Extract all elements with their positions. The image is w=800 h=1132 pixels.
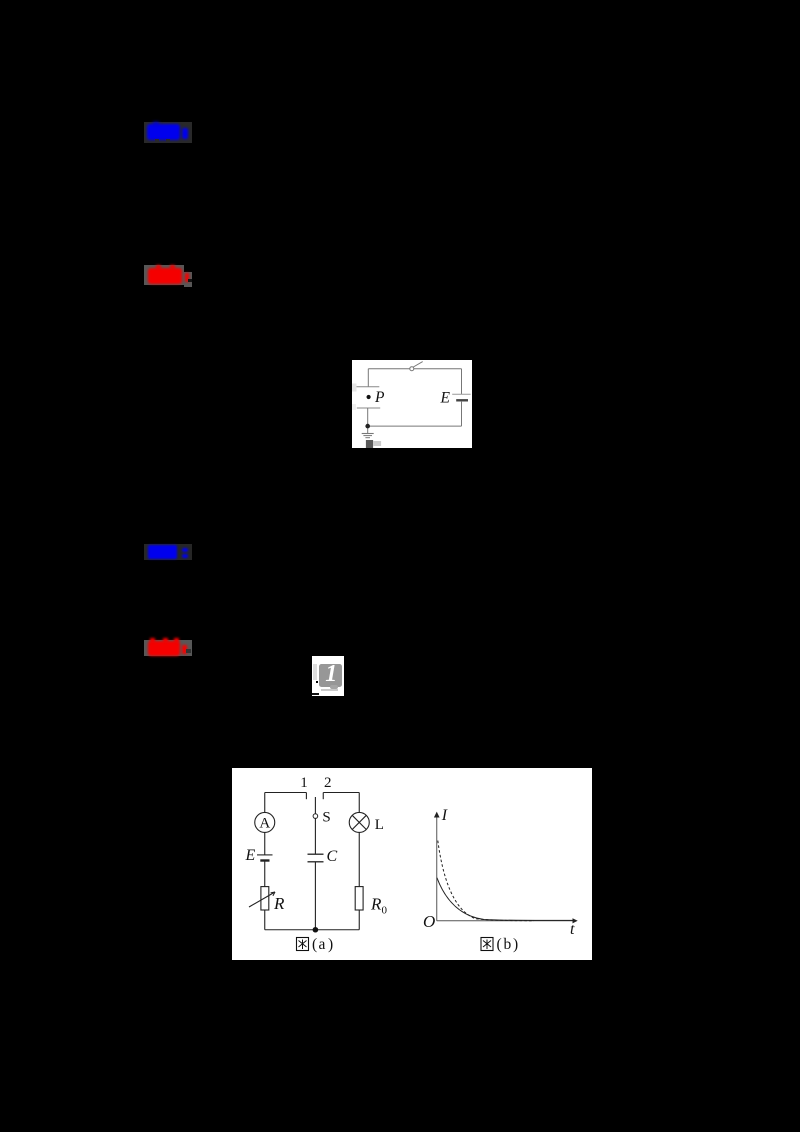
svg-text:E: E: [440, 390, 451, 407]
svg-text:O: O: [423, 912, 435, 931]
svg-text:R: R: [370, 895, 382, 914]
svg-text:0: 0: [382, 905, 388, 917]
svg-text:P: P: [374, 389, 385, 406]
svg-text:b: b: [504, 936, 512, 953]
svg-text:t: t: [570, 921, 575, 938]
svg-text:I: I: [441, 807, 448, 824]
svg-text:): ): [328, 936, 333, 953]
svg-text:A: A: [259, 815, 270, 831]
svg-text:S: S: [322, 809, 330, 825]
svg-text:1: 1: [300, 775, 308, 791]
svg-text:2: 2: [324, 775, 332, 791]
svg-text:L: L: [375, 817, 384, 833]
svg-text:C: C: [327, 848, 338, 865]
svg-text:E: E: [245, 847, 256, 864]
svg-text:a: a: [319, 936, 326, 953]
svg-text:(: (: [312, 936, 317, 953]
svg-text:(: (: [497, 936, 502, 953]
svg-text:R: R: [273, 894, 285, 913]
svg-text:): ): [513, 936, 518, 953]
